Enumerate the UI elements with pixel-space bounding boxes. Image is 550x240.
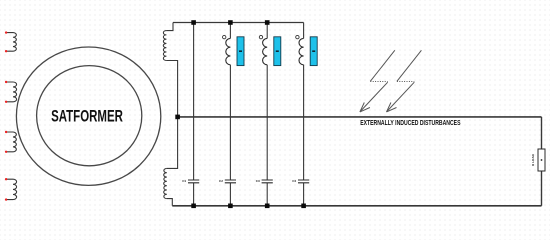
wire branch 4 lower <box>303 183 305 206</box>
wire branch 2 middle <box>229 65 231 180</box>
junction top bus / branch 2 <box>228 20 233 25</box>
winding L3 terminal bottom <box>5 151 7 153</box>
svg-text:C2: C2 <box>219 179 223 183</box>
polarity dot (primary) <box>223 35 226 38</box>
capacitor C2 plates <box>225 180 236 183</box>
primary coil <box>263 38 268 64</box>
capacitor C1 plates <box>188 180 199 183</box>
junction bottom bus / branch 3 <box>265 204 270 209</box>
primary coil <box>299 38 304 64</box>
winding L2 terminal bottom <box>5 101 7 103</box>
winding L1 coil <box>6 33 16 52</box>
capacitor C4 plates <box>298 180 309 183</box>
transformer SATFORMER inner ring <box>37 66 142 166</box>
wire top bus <box>173 22 304 24</box>
wire branch 3 middle <box>266 65 268 180</box>
inductor series top <box>163 31 166 61</box>
winding L4 coil <box>6 179 17 199</box>
primary coil <box>226 38 231 64</box>
wire branch 2 lower <box>229 183 231 206</box>
winding L2 coil <box>6 82 17 102</box>
inductor series bottom <box>164 168 167 198</box>
polarity dot (primary) <box>259 35 262 38</box>
winding L1 terminal top <box>5 31 7 33</box>
junction top bus / branch 3 <box>265 20 270 25</box>
svg-text:C1: C1 <box>182 179 186 183</box>
winding L3 coil <box>6 132 16 152</box>
disturbance arrow 2 <box>397 50 422 81</box>
svg-text:EXTERNALLY INDUCED DISTURBANCE: EXTERNALLY INDUCED DISTURBANCES <box>360 120 461 127</box>
wire right vertical <box>541 117 543 206</box>
polarity dot (primary) <box>296 35 299 38</box>
svg-text:R LOAD: R LOAD <box>531 153 535 166</box>
junction output bus / left vertical <box>175 115 180 120</box>
secondary bar value mark <box>239 50 242 52</box>
winding L2 terminal top <box>5 81 7 83</box>
wire branch 3 lower <box>266 183 268 206</box>
wire to bottom bus <box>167 199 173 206</box>
resistor R LOAD body <box>538 149 545 171</box>
wire left vertical <box>166 61 177 169</box>
winding L1 terminal bottom <box>5 50 7 52</box>
secondary bar value mark <box>276 50 279 52</box>
disturbance arrow 1 <box>370 50 395 81</box>
wire branch 4 upper <box>303 23 305 39</box>
winding L4 terminal top <box>5 178 7 180</box>
junction top bus / branch 1 <box>191 20 196 25</box>
wire branch 3 upper <box>266 23 268 39</box>
wire top-left corner <box>166 23 173 31</box>
wire bottom bus <box>172 205 541 207</box>
transformer SATFORMER outer ring <box>16 47 160 185</box>
junction bottom bus / branch 2 <box>228 204 233 209</box>
secondary winding bar <box>237 37 244 66</box>
wire branch 2 upper <box>229 23 231 39</box>
svg-text:C4: C4 <box>292 179 296 183</box>
junction bottom bus / branch 1 <box>191 204 196 209</box>
junction bottom bus / branch 4 <box>301 204 306 209</box>
wire output bus (middle) <box>178 116 542 118</box>
wire branch 4 middle <box>303 65 305 180</box>
wire branch 1 lower <box>193 183 195 206</box>
winding L3 terminal top <box>5 131 7 133</box>
capacitor C3 plates <box>262 180 273 183</box>
wire branch 1 <box>193 23 195 181</box>
secondary winding bar <box>274 37 281 66</box>
winding L4 terminal bottom <box>5 198 7 200</box>
svg-text:SATFORMER: SATFORMER <box>51 107 123 125</box>
secondary winding bar <box>310 37 317 66</box>
secondary bar value mark <box>312 50 315 52</box>
resistor R LOAD center dot <box>541 159 543 161</box>
svg-text:C3: C3 <box>256 179 260 183</box>
